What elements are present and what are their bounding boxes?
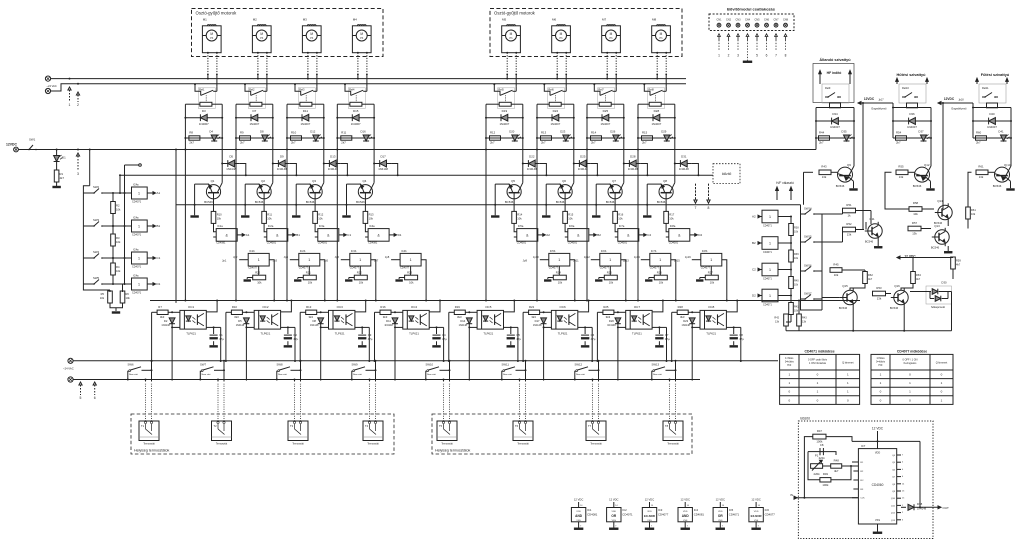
svg-text:CD4081: CD4081: [694, 513, 705, 517]
svg-text:R20: R20: [255, 270, 260, 274]
svg-text:M2: M2: [253, 18, 257, 22]
ground Q11: [877, 240, 879, 246]
svg-text:D28: D28: [630, 154, 636, 158]
wire right cluster links: [822, 213, 843, 215]
svg-text:CLK: CLK: [860, 498, 865, 500]
svg-text:R44: R44: [819, 130, 825, 134]
svg-text:OC1: OC1: [188, 305, 195, 309]
svg-text:6: 6: [766, 54, 768, 58]
wire Rel11 arrows: [976, 81, 978, 84]
wire opto 4 lower-left to bottom: [394, 327, 396, 380]
svg-text:D3: D3: [202, 109, 206, 113]
svg-text:D31: D31: [681, 154, 687, 158]
relay link Rel2: [255, 95, 257, 102]
svg-text:CD4077: CD4077: [701, 266, 711, 269]
svg-text:R17: R17: [669, 213, 674, 217]
svg-text:4k7: 4k7: [868, 277, 873, 281]
relay Rel1: [198, 88, 215, 109]
svg-text:R4: R4: [116, 265, 120, 269]
transistor Q9 BC546: [838, 167, 853, 182]
svg-text:HF indító: HF indító: [827, 71, 842, 75]
svg-text:Rel10: Rel10: [902, 86, 909, 90]
svg-text:R5: R5: [101, 292, 105, 296]
svg-text:2k7: 2k7: [591, 141, 596, 145]
wire gate output D1: [147, 283, 153, 285]
svg-text:10k: 10k: [669, 217, 674, 221]
cell frame column 5: [486, 103, 499, 105]
svg-text:4k7: 4k7: [916, 277, 921, 281]
svg-text:D22: D22: [529, 154, 535, 158]
diode 1N4148 column 8: [675, 163, 692, 165]
transistor Q15: [843, 290, 857, 304]
wire motor M8 to relay: [656, 52, 658, 54]
resistor right pull R41 10k: [778, 295, 791, 297]
svg-text:10k: 10k: [359, 280, 364, 284]
cell frame column 2: [236, 103, 250, 105]
svg-text:D1: D1: [157, 282, 161, 286]
svg-text:1: 1: [769, 215, 771, 219]
ground pulldown column 4: [399, 277, 405, 279]
resistor right pull R40 10k: [778, 269, 791, 271]
AND gate CD4081 column 1: [216, 229, 237, 242]
svg-text:3k3: 3k3: [531, 315, 536, 319]
ground capacitor C5: [510, 341, 512, 345]
svg-text:A2: A2: [546, 233, 550, 237]
resistor R51 1k: [843, 208, 856, 213]
resistor R 10k pulldown column 8: [705, 275, 718, 280]
wire opto 4 out to N bus: [443, 327, 445, 361]
svg-text:H/F: H/F: [787, 364, 792, 367]
svg-text:R10: R10: [291, 130, 297, 134]
svg-text:VSS: VSS: [683, 520, 688, 522]
svg-text:IC3a: IC3a: [319, 224, 325, 228]
dashed enclosure Helyiség termosztátok: [432, 414, 692, 454]
wire opto 2 out to N bus: [294, 327, 296, 361]
cell frame column 4: [337, 103, 350, 105]
svg-text:2k7: 2k7: [240, 141, 245, 145]
svg-text:M3: M3: [303, 18, 307, 22]
terminal N bottom left: [68, 358, 73, 363]
wire CN2 drop: [727, 34, 730, 37]
svg-text:12 VDC: 12 VDC: [609, 498, 618, 502]
node marker 7: [695, 184, 697, 200]
svg-text:1N4148: 1N4148: [378, 167, 388, 171]
wire opto 2 lower-left to bottom: [245, 327, 247, 380]
svg-text:CD4077: CD4077: [600, 266, 610, 269]
svg-text:10k: 10k: [834, 273, 839, 277]
svg-text:D26: D26: [610, 130, 616, 134]
wire SW11 to thermostat: [525, 361, 527, 382]
svg-text:D19: D19: [502, 109, 508, 113]
diode 1N4148 column 3: [324, 163, 341, 165]
svg-text:Jp15: Jp15: [674, 259, 680, 263]
svg-text:IC5b: IC5b: [550, 249, 556, 253]
svg-text:SW7: SW7: [200, 363, 207, 367]
svg-text:1: 1: [359, 258, 361, 262]
svg-text:TLP621: TLP621: [261, 332, 271, 336]
svg-text:Jp11: Jp11: [573, 259, 579, 263]
svg-text:IC4a: IC4a: [133, 273, 139, 277]
resistor R 3k3 opto 2: [231, 310, 242, 314]
relay coil Rel1: [200, 102, 212, 106]
svg-text:R23: R23: [407, 270, 412, 274]
svg-text:BC546: BC546: [505, 200, 514, 204]
potentiometer P1 220k: [811, 464, 823, 469]
XNOR gate CD4077 column 7: [650, 253, 671, 266]
AND gate CD4081 column 4: [368, 229, 389, 242]
svg-text:R11: R11: [341, 130, 346, 134]
svg-text:Jp10: Jp10: [533, 255, 539, 259]
svg-text:M: M: [510, 32, 513, 36]
thermostat T5: [437, 421, 457, 441]
svg-text:IC5: IC5: [729, 508, 734, 512]
svg-text:BC546: BC546: [356, 200, 365, 204]
svg-text:Jp13: Jp13: [623, 259, 629, 263]
XNOR gate CD4077 column 4: [400, 253, 421, 266]
relay Rel10: [899, 84, 926, 103]
svg-text:Nem zárt: Nem zárt: [129, 373, 138, 376]
svg-text:IC6: IC6: [765, 508, 770, 512]
svg-text:Q14: Q14: [937, 199, 943, 203]
svg-text:R55: R55: [898, 165, 904, 169]
svg-text:Nem zárt: Nem zárt: [202, 373, 211, 376]
ground IC7: [877, 524, 879, 532]
ground bus stub column 8: [643, 216, 651, 218]
svg-text:47µ: 47µ: [739, 337, 744, 341]
diode D 1N4007 column 7: [587, 117, 624, 119]
wire opto 6 lower-left to bottom: [543, 327, 545, 380]
diode D 1N4148 opto 8: [688, 311, 700, 313]
svg-text:1N4007: 1N4007: [550, 122, 560, 126]
wire vertical x176: [175, 150, 177, 303]
svg-text:R3: R3: [116, 236, 120, 240]
diode D 1N4007 column 8: [638, 117, 675, 119]
cell frame Rel9: [816, 107, 854, 109]
svg-text:Termosztát: Termosztát: [216, 442, 228, 445]
svg-text:4k7: 4k7: [956, 263, 961, 267]
svg-text:BC546: BC546: [839, 306, 848, 310]
wire timer output OUT: [920, 506, 938, 508]
svg-text:C8: C8: [820, 443, 824, 447]
svg-text:M: M: [660, 32, 663, 36]
svg-text:1N4007: 1N4007: [830, 125, 840, 129]
wire XNOR out column 7: [671, 260, 676, 301]
svg-text:CN4: CN4: [745, 19, 751, 22]
wire bus1: [51, 78, 686, 80]
svg-text:D7: D7: [252, 109, 256, 113]
svg-text:R61: R61: [978, 165, 984, 169]
svg-text:47µ: 47µ: [368, 337, 373, 341]
wire XNOR out column 3: [371, 260, 376, 301]
wire SW8 to thermostat: [300, 361, 302, 382]
svg-text:M7: M7: [602, 18, 606, 22]
wire R62 to Q15: [850, 284, 865, 290]
svg-text:D23: D23: [683, 319, 688, 323]
svg-text:M: M: [360, 32, 363, 36]
resistor R55 13k base: [896, 170, 908, 175]
ground pulldown column 2: [298, 277, 304, 279]
ground pulldown column 3: [349, 277, 355, 279]
wire opto 1 output top: [206, 301, 217, 312]
IC7 CD4060 counter: [858, 449, 896, 524]
svg-text:Helyiség termosztátok: Helyiség termosztátok: [134, 449, 170, 453]
wire XNOR out column 6: [621, 260, 626, 301]
svg-text:D25: D25: [603, 109, 609, 113]
svg-text:R60: R60: [976, 130, 982, 134]
wire opto 7 out to N bus: [666, 327, 668, 361]
svg-text:0 OFF csak fűtés: 0 OFF csak fűtés: [808, 358, 828, 361]
transistor Q6 BC546: [558, 185, 572, 199]
svg-text:R10: R10: [217, 213, 222, 217]
svg-text:IC4b: IC4b: [401, 249, 407, 253]
cell frame column 6: [537, 103, 549, 105]
wire column rail drop: [586, 150, 588, 301]
svg-text:Nem zárt: Nem zárt: [427, 373, 436, 376]
svg-text:D17: D17: [535, 319, 540, 323]
svg-text:1N4007: 1N4007: [499, 122, 509, 126]
svg-text:OC7: OC7: [634, 305, 641, 309]
transistor Q14 right: [938, 205, 952, 219]
resistor 2k7 and LED column 5: [486, 137, 523, 139]
svg-text:TLP621: TLP621: [558, 332, 568, 336]
svg-text:D1: D1: [398, 233, 402, 237]
resistor R 10k pulldown column 1: [253, 275, 266, 280]
optocoupler OC3 TLP621: [329, 310, 355, 329]
wire Q15 emitter to return bus: [852, 307, 854, 331]
svg-text:CN2: CN2: [726, 19, 732, 22]
node marker 5: [79, 382, 82, 385]
svg-text:R62: R62: [868, 273, 873, 277]
svg-text:OR: OR: [611, 514, 616, 518]
svg-text:1N4007: 1N4007: [600, 122, 610, 126]
XNOR gate CD4077 column 8: [701, 253, 722, 266]
svg-text:BC546: BC546: [865, 239, 874, 243]
svg-text:47µ: 47µ: [442, 337, 447, 341]
svg-text:IC4: IC4: [694, 508, 699, 512]
buffer gate IC1a CD4071: [120, 192, 132, 194]
relay Rel9: [822, 84, 849, 103]
svg-text:CD4077 működése: CD4077 működése: [897, 349, 927, 353]
svg-text:Helyiség termosztátok: Helyiség termosztátok: [435, 449, 471, 453]
svg-text:CD4081: CD4081: [267, 242, 277, 245]
svg-text:2k7: 2k7: [189, 141, 194, 145]
svg-text:1N4148: 1N4148: [236, 324, 245, 327]
ground bus stub column 4: [343, 216, 351, 218]
resistor R 3k3 opto 4: [380, 310, 391, 314]
wire column rail drop: [637, 150, 639, 301]
svg-text:2k7: 2k7: [896, 141, 901, 145]
cell frame Rel11: [973, 107, 1011, 109]
svg-text:A1: A1: [157, 191, 161, 195]
svg-text:VSS: VSS: [612, 520, 617, 522]
wire SW6 to thermostat: [151, 361, 153, 382]
svg-text:BC546: BC546: [993, 184, 1002, 188]
diode pair D30 hőkapcsoló: [926, 286, 952, 304]
resistor 2k7 and LED column 8: [638, 137, 675, 139]
svg-text:C2: C2: [752, 268, 756, 272]
wire opto 6 output top: [578, 301, 589, 312]
svg-text:CD4077: CD4077: [765, 513, 776, 517]
capacitor C8 47u: [733, 327, 735, 334]
svg-text:CN8: CN8: [783, 19, 789, 22]
svg-text:IC1a: IC1a: [217, 224, 223, 228]
svg-text:Nem zárt: Nem zárt: [353, 373, 362, 376]
resistor R emitter 10k column 7: [614, 193, 616, 212]
svg-text:Hűtési szivattyú: Hűtési szivattyú: [897, 73, 927, 77]
svg-text:B1: B1: [296, 233, 300, 237]
ground Q9: [850, 189, 858, 191]
svg-text:CD4060: CD4060: [872, 483, 884, 487]
svg-text:VDD: VDD: [718, 511, 723, 513]
wire opto 3 output top: [355, 301, 366, 312]
relay link Rel8: [655, 95, 657, 102]
wire opto 8 output top: [726, 301, 737, 312]
wire Rel9 arrows: [819, 74, 821, 84]
svg-text:Rel9: Rel9: [825, 86, 831, 90]
capacitor C8 220n: [820, 451, 823, 453]
svg-text:M: M: [610, 32, 613, 36]
svg-text:C1: C1: [347, 233, 351, 237]
svg-text:B2: B2: [752, 241, 756, 245]
svg-text:47µ: 47µ: [516, 337, 521, 341]
resistor right pull R39 10k: [778, 242, 791, 244]
wire opto 6 output bottom: [578, 326, 585, 328]
svg-text:TLP621: TLP621: [335, 332, 345, 336]
svg-text:R26: R26: [657, 270, 662, 274]
dashed enclosure Helyiség termosztátok: [131, 414, 394, 454]
resistor 2k7 and LED column 2: [236, 137, 273, 139]
relay link Rel5: [505, 95, 507, 102]
svg-text:R9: R9: [240, 130, 244, 134]
svg-text:D36: D36: [909, 112, 915, 116]
resistor R59 4k7: [951, 257, 956, 269]
relay Rel6: [548, 88, 565, 109]
svg-text:Q9: Q9: [847, 163, 851, 167]
svg-text:Jp3: Jp3: [273, 259, 278, 263]
svg-text:D29: D29: [661, 130, 667, 134]
svg-text:12VDC: 12VDC: [864, 97, 875, 101]
svg-text:BC546: BC546: [306, 200, 315, 204]
svg-text:IC3: IC3: [658, 508, 663, 512]
svg-text:10k: 10k: [517, 217, 522, 221]
svg-text:1N4148: 1N4148: [607, 324, 616, 327]
resistor R emitter 10k column 5: [513, 193, 515, 212]
svg-text:D28: D28: [654, 109, 660, 113]
diode 1N4148 column 6: [574, 163, 591, 165]
svg-text:R52: R52: [846, 222, 852, 226]
resistor right pull R38 10k: [778, 216, 791, 218]
svg-text:1: 1: [138, 282, 140, 286]
svg-text:Nem zárt: Nem zárt: [503, 373, 512, 376]
svg-text:1N4148: 1N4148: [226, 167, 236, 171]
svg-text:220n: 220n: [819, 456, 826, 460]
wire bus2: [51, 84, 686, 91]
wire return bus right cluster: [786, 330, 952, 332]
svg-text:EX-NOR: EX-NOR: [644, 514, 655, 518]
wire R45 to R62: [842, 269, 865, 271]
svg-text:3: 3: [737, 54, 739, 58]
svg-text:R43: R43: [821, 165, 827, 169]
ground Q13/Q14: [947, 246, 949, 251]
wire motor M6 to relay: [556, 52, 558, 54]
capacitor C3 47u: [361, 327, 363, 334]
resistor R63 4k7: [911, 272, 916, 284]
svg-text:IC4a: IC4a: [369, 224, 375, 228]
relay Rel2: [248, 88, 265, 109]
wire L to thermostat 2: [217, 379, 219, 381]
svg-text:R48: R48: [834, 458, 840, 462]
svg-text:47µ: 47µ: [591, 337, 596, 341]
diode 1N4148 column 5: [523, 163, 540, 165]
diode 1N4148 column 2: [273, 163, 290, 165]
svg-text:R28: R28: [678, 305, 684, 309]
dashed enclosure: Osztó-gyűjtő motorok: [192, 9, 384, 57]
ground pulldown column 7: [649, 277, 655, 279]
svg-text:R38: R38: [794, 227, 799, 230]
ground IC5: [719, 522, 721, 528]
wire left block feed: [89, 149, 91, 151]
svg-text:10k: 10k: [126, 296, 131, 300]
ground capacitor C8: [733, 341, 735, 345]
svg-text:SW8: SW8: [277, 363, 284, 367]
wire L to thermostat 4: [369, 379, 371, 381]
diode D 1N4148 opto 7: [614, 311, 626, 313]
svg-text:4k7: 4k7: [60, 176, 65, 180]
svg-text:C1: C1: [157, 256, 161, 260]
dashed box Időzítő reference: [713, 164, 740, 184]
wire 12VDC to R59: [913, 257, 953, 259]
relay Rel8: [648, 88, 665, 109]
svg-text:R12: R12: [490, 130, 496, 134]
resistor R49 100k: [820, 478, 831, 482]
resistor R54 2k7 and LED D37: [893, 137, 931, 139]
svg-text:Q kimenet: Q kimenet: [936, 361, 948, 364]
resistor R emitter 10k column 4: [364, 193, 366, 212]
svg-text:D22: D22: [553, 109, 559, 113]
svg-text:R25: R25: [603, 305, 609, 309]
svg-text:CD4071: CD4071: [622, 513, 633, 517]
svg-text:IC7a: IC7a: [619, 224, 625, 228]
svg-text:13k: 13k: [899, 175, 904, 179]
ground capacitor C2: [287, 341, 289, 345]
wire opto 8 lower-left to bottom: [691, 327, 693, 380]
svg-text:8: 8: [708, 206, 710, 210]
wire ground bus y204.8: [176, 204, 801, 206]
svg-text:R39: R39: [794, 253, 799, 256]
svg-text:Időzítő: Időzítő: [722, 172, 732, 176]
svg-text:SW6: SW6: [128, 363, 135, 367]
svg-text:10k: 10k: [558, 280, 563, 284]
node marker 6: [93, 382, 96, 385]
wire OC feed bus: [150, 300, 860, 302]
svg-text:D41: D41: [998, 130, 1004, 134]
wire AND output C1: [339, 234, 344, 236]
svg-text:Q2: Q2: [261, 179, 265, 183]
svg-text:Q6: Q6: [562, 179, 566, 183]
svg-text:IC3b: IC3b: [351, 249, 357, 253]
resistor R47 100k: [813, 434, 826, 439]
resistor R43b 13k: [797, 314, 802, 326]
resistor R62 4k7: [863, 272, 868, 284]
relay coil Rel3: [300, 102, 312, 106]
capacitor C2 47u: [287, 327, 289, 334]
ground Q(14): [1007, 189, 1015, 191]
resistor R 3k3 opto 3: [306, 310, 317, 314]
svg-text:Jp16: Jp16: [685, 255, 691, 259]
svg-text:B2: B2: [597, 233, 601, 237]
svg-text:Q11: Q11: [869, 217, 875, 221]
wire motor M2 to relay: [257, 52, 259, 54]
